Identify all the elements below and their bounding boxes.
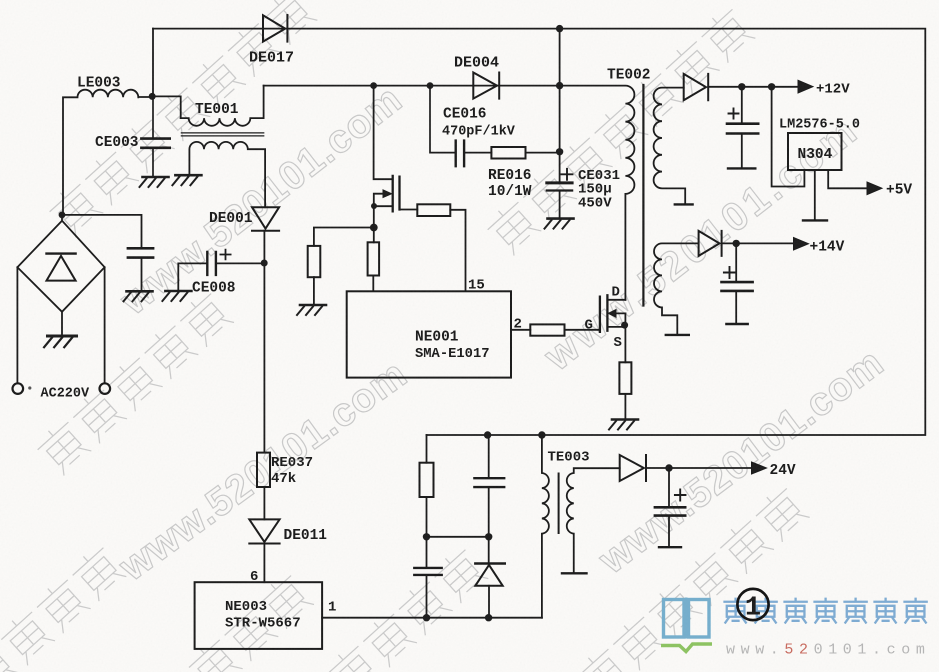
node Q2 source <box>621 322 628 329</box>
ground T under C24 <box>659 546 681 548</box>
label NE003 <box>225 599 267 615</box>
node CE008 junction <box>261 260 268 267</box>
wire N304 input <box>772 87 805 187</box>
node rail TE003 top <box>538 431 545 438</box>
node snubber bottom <box>423 614 430 621</box>
label +5V <box>886 183 912 199</box>
logo blue chinese text <box>723 598 927 624</box>
label DE011 <box>284 528 328 544</box>
label LM2576-5.0 <box>779 118 860 133</box>
node RE016 x559.6 <box>556 148 563 155</box>
node 12V a <box>738 83 745 90</box>
wire top rail from node A down-right border to bottom rail <box>153 29 925 435</box>
ground under filter capacitor <box>124 291 153 301</box>
resistor gate drive <box>530 324 599 335</box>
logo url <box>726 642 930 659</box>
label TE001 <box>195 102 239 118</box>
logo circled 1 <box>737 589 768 624</box>
label +14V <box>810 240 845 256</box>
ground T under C14 <box>726 323 747 325</box>
capacitor CE016 <box>430 86 491 167</box>
snubber branch x426.5 <box>426 435 428 463</box>
label N304 <box>798 147 833 163</box>
node mid rail x559.6 <box>556 82 563 89</box>
node bias junction <box>370 224 378 232</box>
capacitor CE008 <box>178 250 262 291</box>
diode DE011 <box>249 519 279 582</box>
ground under CE003 <box>140 177 169 187</box>
wire to +14V <box>722 242 795 244</box>
ground under left bias resistor <box>297 305 326 315</box>
resistor left bias <box>308 228 374 305</box>
transformer TE002 primary <box>560 86 635 300</box>
label RE037 <box>271 455 313 471</box>
node snubber mid <box>423 533 430 540</box>
IC NE001 SMA-E1017 <box>347 291 511 377</box>
wire bridge node to filter capacitor <box>62 215 142 248</box>
label CE031 <box>578 168 620 184</box>
resistor Q2 source <box>619 362 631 419</box>
label 450V <box>578 196 612 212</box>
label 24V <box>770 463 796 479</box>
transformer TE003 secondary <box>567 468 620 572</box>
resistor snubber <box>420 463 434 568</box>
resistor RE016 <box>491 147 559 159</box>
arrow 24V <box>752 462 767 474</box>
pin D <box>612 285 620 301</box>
resistor Q1 gate <box>417 204 465 291</box>
diode DE017 <box>263 15 287 42</box>
label 470pF/1kV <box>442 125 516 140</box>
wire snubber link <box>427 536 489 538</box>
label 47k <box>271 471 296 487</box>
label STR-W5667 <box>225 616 301 632</box>
diode zener clamp <box>475 564 505 618</box>
diode D14 <box>699 231 722 256</box>
label LE003 <box>77 76 121 92</box>
capacitor CE003 <box>141 96 169 176</box>
capacitor branch x488.7 <box>474 435 504 564</box>
node zener bottom <box>485 614 492 621</box>
node 14V <box>733 240 740 247</box>
label CE016 <box>443 107 487 123</box>
transistor Q2 power mosfet <box>600 295 626 362</box>
node top rail x559.6 <box>556 25 563 32</box>
pin 1 <box>328 600 336 616</box>
capacitor snubber lower <box>414 568 441 618</box>
ground T under upper secondary <box>675 203 693 205</box>
node bridge top <box>59 212 66 219</box>
label AC220V <box>41 387 91 402</box>
label TE003 <box>548 450 590 466</box>
wire vertical at x153 to node A <box>152 29 154 97</box>
ground under CE008 <box>162 291 191 301</box>
transformer TE002 secondary upper <box>654 88 686 204</box>
wire x559.6 vertical <box>559 29 561 183</box>
label CE003 <box>95 135 139 151</box>
wire NE003 pin1 bottom rail <box>322 617 542 619</box>
diode D24 <box>620 455 646 481</box>
pin S <box>614 335 622 351</box>
wire N304 gnd <box>803 170 827 220</box>
wire DE001 to RE037 <box>263 231 265 453</box>
node 24V <box>665 464 672 471</box>
logo book icon <box>664 598 710 639</box>
label SMA-E1017 <box>415 347 490 362</box>
node Q1 source <box>371 203 377 209</box>
transistor Q1 small mosfet <box>374 86 418 212</box>
IC NE003 STR-W5667 <box>195 582 323 649</box>
transformer TE001 core <box>181 133 263 136</box>
diode DE004 <box>473 73 499 99</box>
node rail cap top <box>484 431 491 438</box>
label TE002 <box>607 68 651 84</box>
transformer TE002 secondary lower <box>654 243 699 333</box>
transformer TE003 primary with rails <box>542 435 549 618</box>
pin 15 <box>468 278 485 294</box>
wire mid rail y85.6 <box>264 85 560 87</box>
bridge rectifier <box>17 215 104 312</box>
wire N304 out +5V <box>828 170 868 188</box>
wire to +12V <box>708 86 799 88</box>
pin G <box>585 318 593 334</box>
node at x430 <box>427 82 434 89</box>
pin 6 <box>250 569 258 585</box>
logo green swoosh <box>661 644 712 652</box>
node mid rail x373.5 <box>370 82 377 89</box>
pin 2 <box>514 317 522 333</box>
arrow +12V <box>798 80 813 93</box>
node A junction dot <box>149 93 156 100</box>
diode D12 <box>684 74 709 100</box>
capacitor CE031 <box>547 169 573 218</box>
ground T under TE003 secondary <box>562 572 587 574</box>
transformer TE003 core <box>558 474 560 534</box>
label DE001 <box>209 211 253 227</box>
wire node A to TE001 <box>139 96 181 118</box>
transformer TE001 secondary <box>189 142 265 207</box>
node 12V b <box>768 83 775 90</box>
capacitor C12 <box>727 87 758 167</box>
inductor LE003 <box>63 90 138 215</box>
transformer TE001 primary <box>181 86 264 126</box>
ground under CE031 <box>545 219 574 229</box>
ground under TE001 secondary <box>172 175 201 185</box>
label 10/1W <box>488 184 532 200</box>
ground T under lower secondary <box>666 334 689 336</box>
capacitor C14 <box>722 243 753 322</box>
ground under bridge <box>44 312 76 347</box>
arrow +5V <box>867 182 882 195</box>
node branch mid <box>485 533 492 540</box>
label CE008 <box>192 281 236 297</box>
ground under Q2 source resistor <box>609 420 638 430</box>
ground T under C12 <box>728 167 755 169</box>
AC terminal left <box>12 267 23 394</box>
label DE004 <box>454 55 499 72</box>
capacitor bridge filter <box>128 248 153 291</box>
resistor RE037 <box>257 453 270 520</box>
label DE017 <box>249 50 294 67</box>
arrow +14V <box>794 238 809 251</box>
capacitor C24 <box>655 468 686 546</box>
wire NE001 pin2 to gate resistor <box>511 329 530 331</box>
transformer TE002 core <box>642 85 644 306</box>
label RE016 <box>488 168 532 184</box>
label +12V <box>816 82 850 98</box>
label NE001 <box>415 330 459 346</box>
AC terminal right <box>28 267 110 394</box>
label 150u <box>578 182 612 198</box>
diode DE001 <box>252 207 279 231</box>
IC N304 LM2576 <box>788 133 842 170</box>
wire to 24V <box>646 467 753 469</box>
resistor mid bias <box>368 206 380 291</box>
